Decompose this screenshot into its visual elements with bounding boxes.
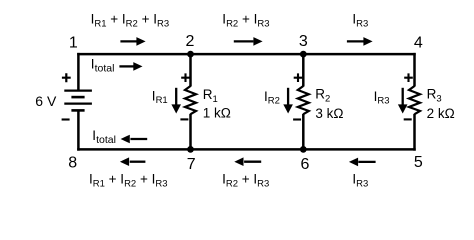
resistor R2 zigzag (298, 86, 309, 114)
junction node 2 (187, 51, 194, 58)
node 1 label (69, 35, 78, 52)
current arrow bottom segment 6-7 (left) (234, 157, 261, 166)
svg-text:6: 6 (301, 156, 310, 173)
wire left branch top (node 1 to battery +) (77, 53, 80, 91)
node 5 label (414, 154, 423, 171)
resistor R2 value 3 kOhm (315, 106, 343, 121)
wire top rail (node 1 to node 4) (77, 53, 416, 56)
battery value label 6 V (35, 93, 57, 109)
node 3 label (299, 33, 308, 50)
node 4 label (414, 35, 423, 52)
current arrow bottom segment 5-6 (left) (349, 158, 376, 167)
svg-text:3 kΩ: 3 kΩ (315, 106, 343, 121)
current label I_R2+I_R3 top (222, 12, 269, 30)
wire left branch bottom (battery - to node 8) (77, 110, 80, 150)
node 2 label (186, 33, 195, 50)
current label I_R2 (branch) (264, 89, 280, 107)
resistor R1 minus mark (180, 118, 188, 120)
wire bottom rail (node 8 to node 5) (77, 148, 416, 151)
resistor R1 label (203, 87, 218, 105)
current label I_R2+I_R3 bottom (222, 172, 269, 190)
resistor R2 label (315, 86, 330, 104)
resistor R2 minus mark (293, 118, 301, 120)
svg-text:2: 2 (186, 33, 195, 50)
resistor R2 plus mark (294, 73, 303, 82)
resistor R1 zigzag (185, 86, 196, 114)
resistor R1 plus mark (181, 73, 190, 82)
current arrow I_R1 down (171, 88, 181, 114)
svg-text:7: 7 (187, 156, 196, 173)
node 6 label (301, 156, 310, 173)
battery 6 V (64, 91, 92, 111)
resistor R3 zigzag (409, 86, 420, 114)
wire R1 to node 7 (189, 114, 192, 151)
resistor R3 plus mark (404, 73, 413, 82)
svg-text:4: 4 (414, 35, 423, 52)
svg-text:3: 3 (299, 33, 308, 50)
current arrow bottom segment 7-8 (left) (120, 157, 145, 166)
current label I_total top (91, 57, 115, 75)
wire branch node 2 to R1 (189, 53, 192, 87)
current arrow I_R3 down (398, 88, 408, 114)
current label I_R1+I_R2+I_R3 bottom (89, 172, 168, 190)
svg-text:8: 8 (68, 155, 77, 172)
svg-text:1 kΩ: 1 kΩ (203, 106, 231, 121)
battery minus mark (62, 118, 70, 120)
junction node 3 (300, 51, 307, 58)
current arrow top segment 3-4 (347, 37, 373, 46)
node 7 label (187, 156, 196, 173)
resistor R3 value 2 kOhm (427, 106, 455, 121)
wire right branch node 4 to R3 (413, 53, 416, 87)
current arrow I_total bottom (left) (121, 135, 148, 144)
resistor R1 value 1 kOhm (203, 106, 231, 121)
svg-text:1: 1 (69, 35, 78, 52)
wire R3 to node 5 (413, 114, 416, 151)
current arrow I_total top (right) (119, 62, 142, 71)
current label I_R3 bottom (352, 172, 368, 190)
resistor R3 minus mark (404, 118, 412, 120)
wire R2 to node 6 (302, 114, 305, 151)
current label I_total bottom (92, 128, 116, 146)
resistor R3 label (427, 86, 442, 104)
current label I_R1 (branch) (152, 88, 168, 106)
current label I_R1+I_R2+I_R3 top (91, 12, 170, 30)
junction node 6 (300, 146, 307, 153)
svg-text:2 kΩ: 2 kΩ (427, 106, 455, 121)
current label I_R3 top (352, 12, 368, 30)
wire branch node 3 to R2 (302, 53, 305, 87)
current arrow top segment 1-2 (120, 37, 145, 46)
current arrow top segment 2-3 (234, 37, 263, 46)
svg-text:5: 5 (414, 154, 423, 171)
junction node 7 (187, 146, 194, 153)
svg-text:6 V: 6 V (35, 93, 57, 109)
current arrow I_R2 down (283, 88, 293, 114)
current label I_R3 (branch) (374, 89, 390, 107)
node 8 label (68, 155, 77, 172)
battery plus mark (62, 73, 71, 82)
